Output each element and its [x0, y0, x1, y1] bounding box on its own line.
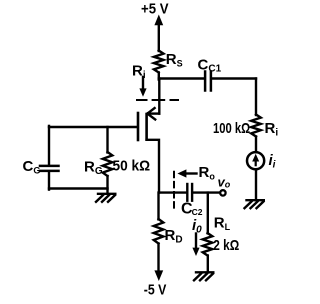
svg-text:Ri: Ri [265, 120, 279, 139]
svg-text:CC1: CC1 [198, 57, 222, 75]
svg-text:Ri: Ri [132, 63, 146, 82]
svg-text:vo: vo [218, 175, 231, 190]
svg-text:i0: i0 [192, 217, 202, 236]
svg-text:CG: CG [23, 158, 41, 176]
svg-text:-5 V: -5 V [144, 282, 167, 299]
svg-text:+5 V: +5 V [141, 1, 169, 18]
svg-text:RD: RD [165, 227, 183, 246]
svg-text:ii: ii [269, 152, 276, 171]
svg-text:2 kΩ: 2 kΩ [213, 237, 239, 254]
svg-text:RG: RG [84, 159, 103, 178]
svg-text:50 kΩ: 50 kΩ [113, 158, 151, 175]
svg-text:Ro: Ro [199, 164, 216, 182]
svg-text:RS: RS [166, 51, 183, 69]
svg-text:CC2: CC2 [181, 201, 203, 218]
svg-text:RL: RL [214, 215, 231, 233]
svg-text:100 kΩ: 100 kΩ [213, 120, 250, 137]
